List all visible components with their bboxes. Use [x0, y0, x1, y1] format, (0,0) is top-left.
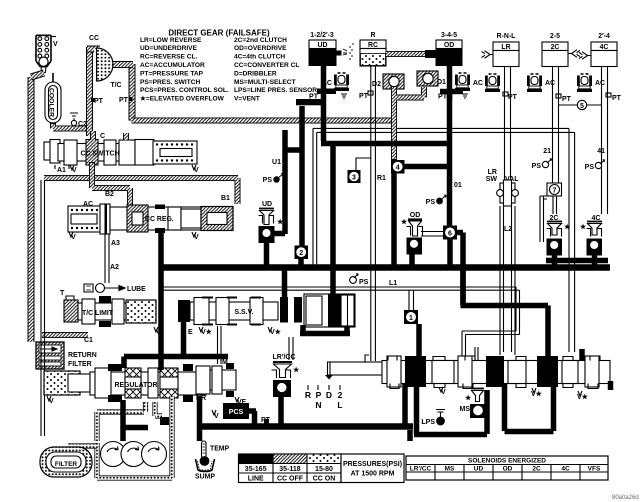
- RC line pair: [371, 66, 376, 361]
- svg-text:OD: OD: [503, 466, 513, 473]
- svg-text:PS: PS: [263, 177, 273, 184]
- manual valve port notches: [388, 356, 600, 361]
- OD return thick line y143: [321, 141, 450, 147]
- node 7: [547, 183, 562, 196]
- manual valve feed stub right: [579, 349, 585, 362]
- suction chamber dotted walls: [68, 396, 172, 478]
- svg-text:2C: 2C: [532, 466, 541, 473]
- svg-text:REGULATOR: REGULATOR: [114, 382, 157, 389]
- pressures table: [239, 454, 405, 483]
- svg-text:LPS: LPS: [421, 419, 435, 426]
- svg-text:AC: AC: [545, 80, 555, 87]
- stem port stub: [365, 355, 369, 362]
- svg-text:AC=ACCUMULATOR: AC=ACCUMULATOR: [140, 62, 205, 69]
- svg-text:PS: PS: [585, 164, 595, 171]
- svg-text:PT: PT: [612, 95, 622, 102]
- bus left riser to regulator: [158, 233, 164, 370]
- LR SW VAL valve: [486, 169, 519, 206]
- OD main line: [447, 66, 453, 99]
- OD main continues: [447, 94, 453, 228]
- 2C feed pair: [553, 66, 559, 183]
- L1 drop to manual valve: [462, 287, 520, 361]
- 2C clutch: [542, 33, 580, 67]
- regulator drain to pump: [120, 400, 126, 441]
- svg-text:U1: U1: [272, 159, 281, 166]
- RC-OD black connector: [425, 50, 436, 58]
- temp sensor: [202, 441, 207, 458]
- svg-text:★: ★: [293, 366, 300, 374]
- svg-text:SOLENOIDS ENERGIZED: SOLENOIDS ENERGIZED: [468, 458, 546, 465]
- C1/E bar: [124, 354, 228, 360]
- svg-text:UD: UD: [474, 466, 484, 473]
- RC clutch: [360, 32, 386, 66]
- LR/CC feed pair from SSV: [289, 337, 293, 360]
- cooler return hatched line (left edge): [28, 77, 35, 342]
- CC REG accumulator: [68, 201, 110, 241]
- 2C bypass pair: [540, 196, 547, 242]
- svg-text:15-80: 15-80: [315, 466, 333, 473]
- node 5: [577, 100, 586, 109]
- OD clutch: [436, 32, 463, 66]
- svg-text:S.S.V.: S.S.V.: [235, 309, 254, 316]
- svg-text:MS: MS: [460, 406, 471, 413]
- converter charge hatched line (T/C right wall down, right to piston line): [132, 117, 394, 124]
- cross pair line (upper): [313, 128, 575, 132]
- vent stack (overflow): [36, 35, 56, 72]
- UD accumulator: [322, 73, 349, 98]
- LR clutch: [482, 33, 520, 67]
- svg-text:AC: AC: [473, 80, 483, 87]
- svg-text:PS=PRES. SWITCH: PS=PRES. SWITCH: [140, 79, 201, 86]
- 2C accumulator: [527, 74, 555, 92]
- svg-text:PT: PT: [359, 93, 369, 100]
- svg-text:2: 2: [299, 250, 303, 257]
- S.S.V. valve: [178, 297, 302, 325]
- solenoids energized table: [406, 456, 608, 480]
- svg-text:1-2/2′-3: 1-2/2′-3: [310, 32, 334, 39]
- svg-text:R: R: [371, 32, 376, 39]
- D1 dribbler: [417, 71, 446, 86]
- T/C enclosure left wall: [86, 47, 93, 136]
- svg-text:35-165: 35-165: [245, 466, 267, 473]
- L2 channel to manual valve: [500, 206, 515, 355]
- node 4 drain to bus: [391, 173, 397, 270]
- 4C solenoid: [580, 215, 602, 256]
- svg-text:B2: B2: [105, 191, 114, 198]
- E line SSV to C1 bar: [181, 321, 187, 354]
- svg-text:T/C: T/C: [110, 82, 121, 89]
- svg-text:PT: PT: [508, 94, 518, 101]
- svg-text:P: P: [316, 390, 322, 400]
- svg-text:LR: LR: [488, 169, 497, 176]
- R P D 2 N L labels: [305, 390, 343, 410]
- C1 hatched line: [42, 332, 88, 338]
- svg-text:7: 7: [553, 187, 557, 194]
- svg-text:E: E: [188, 329, 193, 336]
- svg-text:M: M: [222, 359, 228, 366]
- OD solenoid link to node 6: [421, 232, 443, 237]
- node 4: [391, 160, 405, 174]
- svg-text:80a0a26d: 80a0a26d: [612, 495, 639, 501]
- svg-text:A3: A3: [111, 240, 120, 247]
- svg-text:RETURN: RETURN: [68, 352, 97, 359]
- svg-text:C2: C2: [78, 121, 87, 128]
- svg-text:2: 2: [338, 390, 343, 400]
- node 6: [443, 226, 457, 240]
- RC to OD hatched feed: [386, 51, 427, 57]
- svg-text:FILTER: FILTER: [68, 361, 92, 368]
- svg-text:C: C: [100, 133, 105, 140]
- CC switch top hatched ports: [90, 131, 96, 140]
- svg-text:PS: PS: [532, 163, 542, 170]
- svg-text:D1: D1: [437, 79, 446, 86]
- svg-text:PT: PT: [438, 94, 448, 101]
- 2C solenoid drain: [552, 253, 558, 266]
- svg-text:FILTER: FILTER: [55, 461, 78, 468]
- svg-text:5: 5: [580, 103, 584, 110]
- B circuit hatched line (cc switch to right): [44, 178, 238, 204]
- svg-text:01: 01: [454, 182, 462, 189]
- svg-text:AT 1500 RPM: AT 1500 RPM: [351, 471, 395, 478]
- svg-text:A1: A1: [57, 167, 66, 174]
- svg-text:LR=LOW REVERSE: LR=LOW REVERSE: [140, 37, 202, 44]
- bottom main bar: [197, 423, 413, 430]
- main line pressure bus: [161, 264, 610, 271]
- svg-text:4: 4: [396, 165, 400, 172]
- svg-text:D2: D2: [372, 81, 381, 88]
- svg-text:T: T: [60, 290, 65, 297]
- LPS sensor: [421, 410, 445, 427]
- T/C LIMIT valve: [64, 296, 161, 336]
- LR accumulator: [473, 74, 500, 92]
- svg-text:★=ELEVATED OVERFLOW: ★=ELEVATED OVERFLOW: [140, 95, 225, 103]
- svg-text:PT: PT: [94, 98, 104, 105]
- svg-text:LR′/CC: LR′/CC: [410, 466, 432, 473]
- svg-text:CC OFF: CC OFF: [277, 476, 304, 483]
- svg-text:2′-4: 2′-4: [598, 33, 610, 40]
- svg-text:PT=PRESSURE TAP: PT=PRESSURE TAP: [140, 70, 204, 77]
- CC SWITCH valve: [44, 140, 197, 166]
- svg-text:C1: C1: [84, 337, 93, 344]
- svg-text:RC=REVERSE CL.: RC=REVERSE CL.: [140, 54, 198, 61]
- left riser to M valve: [197, 396, 203, 441]
- node 1 drop to manual valve: [416, 324, 422, 360]
- svg-text:★: ★: [277, 218, 284, 226]
- return filter: [36, 342, 64, 369]
- svg-text:L1: L1: [389, 280, 397, 287]
- svg-text:OD=OVERDRIVE: OD=OVERDRIVE: [234, 45, 287, 52]
- svg-text:SUMP: SUMP: [195, 474, 215, 481]
- PCS solenoid box: [223, 403, 249, 419]
- A2/A3 line (CC REG down to lube): [105, 234, 109, 283]
- svg-text:OD: OD: [410, 212, 421, 219]
- UD PT bar: [296, 99, 326, 105]
- lube pump circle: [84, 284, 125, 293]
- D2 dribbler: [372, 74, 404, 89]
- svg-text:4C=4th CLUTCH: 4C=4th CLUTCH: [234, 54, 285, 61]
- svg-text:★: ★: [564, 223, 571, 231]
- manual valve position ticks: [308, 385, 340, 390]
- REGULATOR valve: [44, 364, 206, 405]
- node 4 link to OD main: [404, 164, 451, 170]
- svg-text:TEMP: TEMP: [210, 446, 230, 453]
- node 2 to main bus: [298, 257, 304, 270]
- svg-text:3-4-5: 3-4-5: [441, 32, 457, 39]
- 4C accumulator: [577, 74, 605, 92]
- OD solenoid: [401, 212, 423, 255]
- svg-text:COOLER: COOLER: [48, 88, 55, 117]
- node 1: [404, 310, 418, 324]
- node 3 branch: [356, 158, 371, 170]
- svg-text:N: N: [315, 400, 321, 410]
- svg-text:PCS: PCS: [229, 409, 244, 416]
- svg-text:L: L: [337, 400, 342, 410]
- T/C cross bar: [113, 61, 133, 68]
- svg-text:A2: A2: [110, 264, 119, 271]
- svg-text:CC REG.: CC REG.: [145, 216, 174, 223]
- L1 line pair: [163, 287, 520, 290]
- svg-text:V★: V★: [270, 328, 282, 336]
- svg-text:★: ★: [401, 218, 408, 226]
- svg-text:PS: PS: [426, 199, 436, 206]
- SSV to M valve pair: [218, 326, 222, 364]
- svg-text:D: D: [326, 390, 332, 400]
- valve top stub pair: [475, 347, 478, 361]
- svg-text:LUBE: LUBE: [127, 286, 146, 293]
- LR/CC drain: [278, 397, 284, 424]
- UD clutch: [309, 32, 337, 66]
- legend left column: [140, 37, 229, 103]
- svg-text:★: ★: [465, 394, 472, 402]
- node 3: [348, 170, 361, 183]
- svg-text:V=VENT: V=VENT: [234, 96, 260, 103]
- OD solenoid drain to bus: [409, 252, 415, 270]
- svg-text:21: 21: [543, 148, 551, 155]
- pump gear circles: [101, 442, 167, 467]
- right end stub: [608, 381, 614, 390]
- svg-text:B1: B1: [221, 195, 230, 202]
- 2C solenoid: [547, 196, 572, 256]
- svg-text:SW: SW: [486, 176, 498, 183]
- T/C top cap: [87, 46, 100, 53]
- B2 hatched line: [92, 162, 130, 205]
- U2 feed line to node 2: [299, 106, 305, 247]
- svg-text:UD: UD: [318, 42, 328, 49]
- svg-text:MS: MS: [445, 466, 455, 473]
- svg-text:★: ★: [580, 223, 587, 231]
- bar drop to regulator: [121, 357, 127, 369]
- 2C/4C collector bar: [546, 258, 608, 264]
- svg-text:AC: AC: [83, 201, 93, 208]
- svg-text:MS=MULTI-SELECT: MS=MULTI-SELECT: [234, 79, 296, 86]
- M valve (torque conv regulator): [196, 363, 236, 397]
- cross pair verticals to manual valve: [569, 128, 575, 352]
- svg-text:UD=UNDERDRIVE: UD=UNDERDRIVE: [140, 45, 198, 52]
- svg-text:41: 41: [597, 148, 605, 155]
- manual valve: [328, 356, 611, 387]
- bar right foot: [407, 430, 413, 441]
- UD main line: [324, 66, 334, 296]
- svg-text:V: V: [53, 41, 58, 48]
- svg-text:LPS=LINE PRES. SENSOR: LPS=LINE PRES. SENSOR: [234, 87, 317, 94]
- MS solenoid: [460, 389, 488, 419]
- node 6 drain: [447, 240, 453, 271]
- position pointer: [325, 375, 333, 380]
- OD PT bar: [440, 89, 463, 94]
- node 1 feed pair: [409, 290, 414, 310]
- PS switch (L1): [350, 277, 357, 284]
- svg-text:T/C LIMIT: T/C LIMIT: [82, 310, 114, 317]
- svg-text:CC ON: CC ON: [313, 476, 336, 483]
- svg-text:V★: V★: [201, 328, 213, 336]
- svg-text:AC: AC: [595, 80, 605, 87]
- svg-text:R: R: [305, 390, 311, 400]
- LR/CC solenoid: [272, 354, 301, 397]
- svg-text:D=DRIBBLER: D=DRIBBLER: [234, 70, 277, 77]
- node 2: [295, 246, 309, 260]
- MS loop bottom: [414, 390, 487, 435]
- svg-text:CC: CC: [89, 35, 99, 42]
- SSV pressure piston assembly: [300, 294, 355, 334]
- sump pickup: [196, 456, 215, 471]
- 4C solenoid drain: [592, 253, 598, 266]
- bus drop to manual valve right: [461, 264, 549, 358]
- svg-text:UD: UD: [262, 201, 272, 208]
- svg-text:3: 3: [352, 174, 356, 181]
- svg-text:LINE: LINE: [248, 476, 264, 483]
- bus feed into SSV black band: [282, 268, 288, 300]
- legend right column: [234, 37, 317, 103]
- UD solenoid drain to bus: [264, 242, 270, 270]
- svg-text:PT: PT: [562, 96, 572, 103]
- node 6 side drop: [457, 233, 463, 306]
- cooler outlet line to T/C: [53, 123, 88, 129]
- cooler: [45, 73, 61, 123]
- svg-text:2C=2nd CLUTCH: 2C=2nd CLUTCH: [234, 37, 287, 44]
- svg-text:VFS: VFS: [588, 466, 601, 473]
- UD solenoid: [259, 201, 285, 243]
- C2 check valve: [70, 113, 78, 126]
- CC REG valve: [110, 205, 233, 242]
- svg-text:PCS=PRES. CONTROL SOL.: PCS=PRES. CONTROL SOL.: [140, 87, 229, 94]
- U1 line: [285, 130, 301, 234]
- UD dribbler spray: [336, 43, 354, 60]
- CC converter clutch piston (dotted half disc): [97, 48, 114, 81]
- valve drop left pair: [402, 384, 408, 424]
- svg-text:CC SWITCH: CC SWITCH: [80, 151, 119, 158]
- svg-text:CC=CONVERTER CL: CC=CONVERTER CL: [234, 62, 299, 69]
- T/C enclosure right wall: [129, 64, 136, 120]
- svg-text:35-118: 35-118: [279, 466, 301, 473]
- svg-text:L2: L2: [504, 226, 512, 233]
- middle U loop: [505, 384, 554, 432]
- svg-text:2-5: 2-5: [550, 33, 560, 40]
- svg-text:R1: R1: [377, 175, 386, 182]
- OD accumulator: [455, 73, 470, 98]
- 4C feed pair: [602, 66, 608, 214]
- svg-text:1: 1: [409, 315, 413, 322]
- svg-text:6: 6: [448, 230, 452, 237]
- svg-text:LR′/CC: LR′/CC: [272, 354, 295, 361]
- UD solenoid housing link to U1 line: [272, 231, 285, 237]
- 4C clutch: [579, 33, 617, 67]
- svg-text:4C: 4C: [561, 466, 570, 473]
- LR feed pair: [505, 66, 511, 183]
- svg-text:PRESSURES(PSI): PRESSURES(PSI): [343, 461, 402, 468]
- PCS drain: [248, 411, 256, 424]
- svg-text:R-N-L: R-N-L: [497, 33, 516, 40]
- node 5 link: [558, 104, 602, 106]
- svg-text:PT: PT: [119, 97, 129, 104]
- D2 drop hatched: [394, 87, 424, 160]
- svg-text:PS: PS: [359, 279, 369, 286]
- svg-text:OD: OD: [444, 42, 454, 49]
- left A-line pair: [41, 180, 45, 436]
- oil filter: [40, 447, 92, 477]
